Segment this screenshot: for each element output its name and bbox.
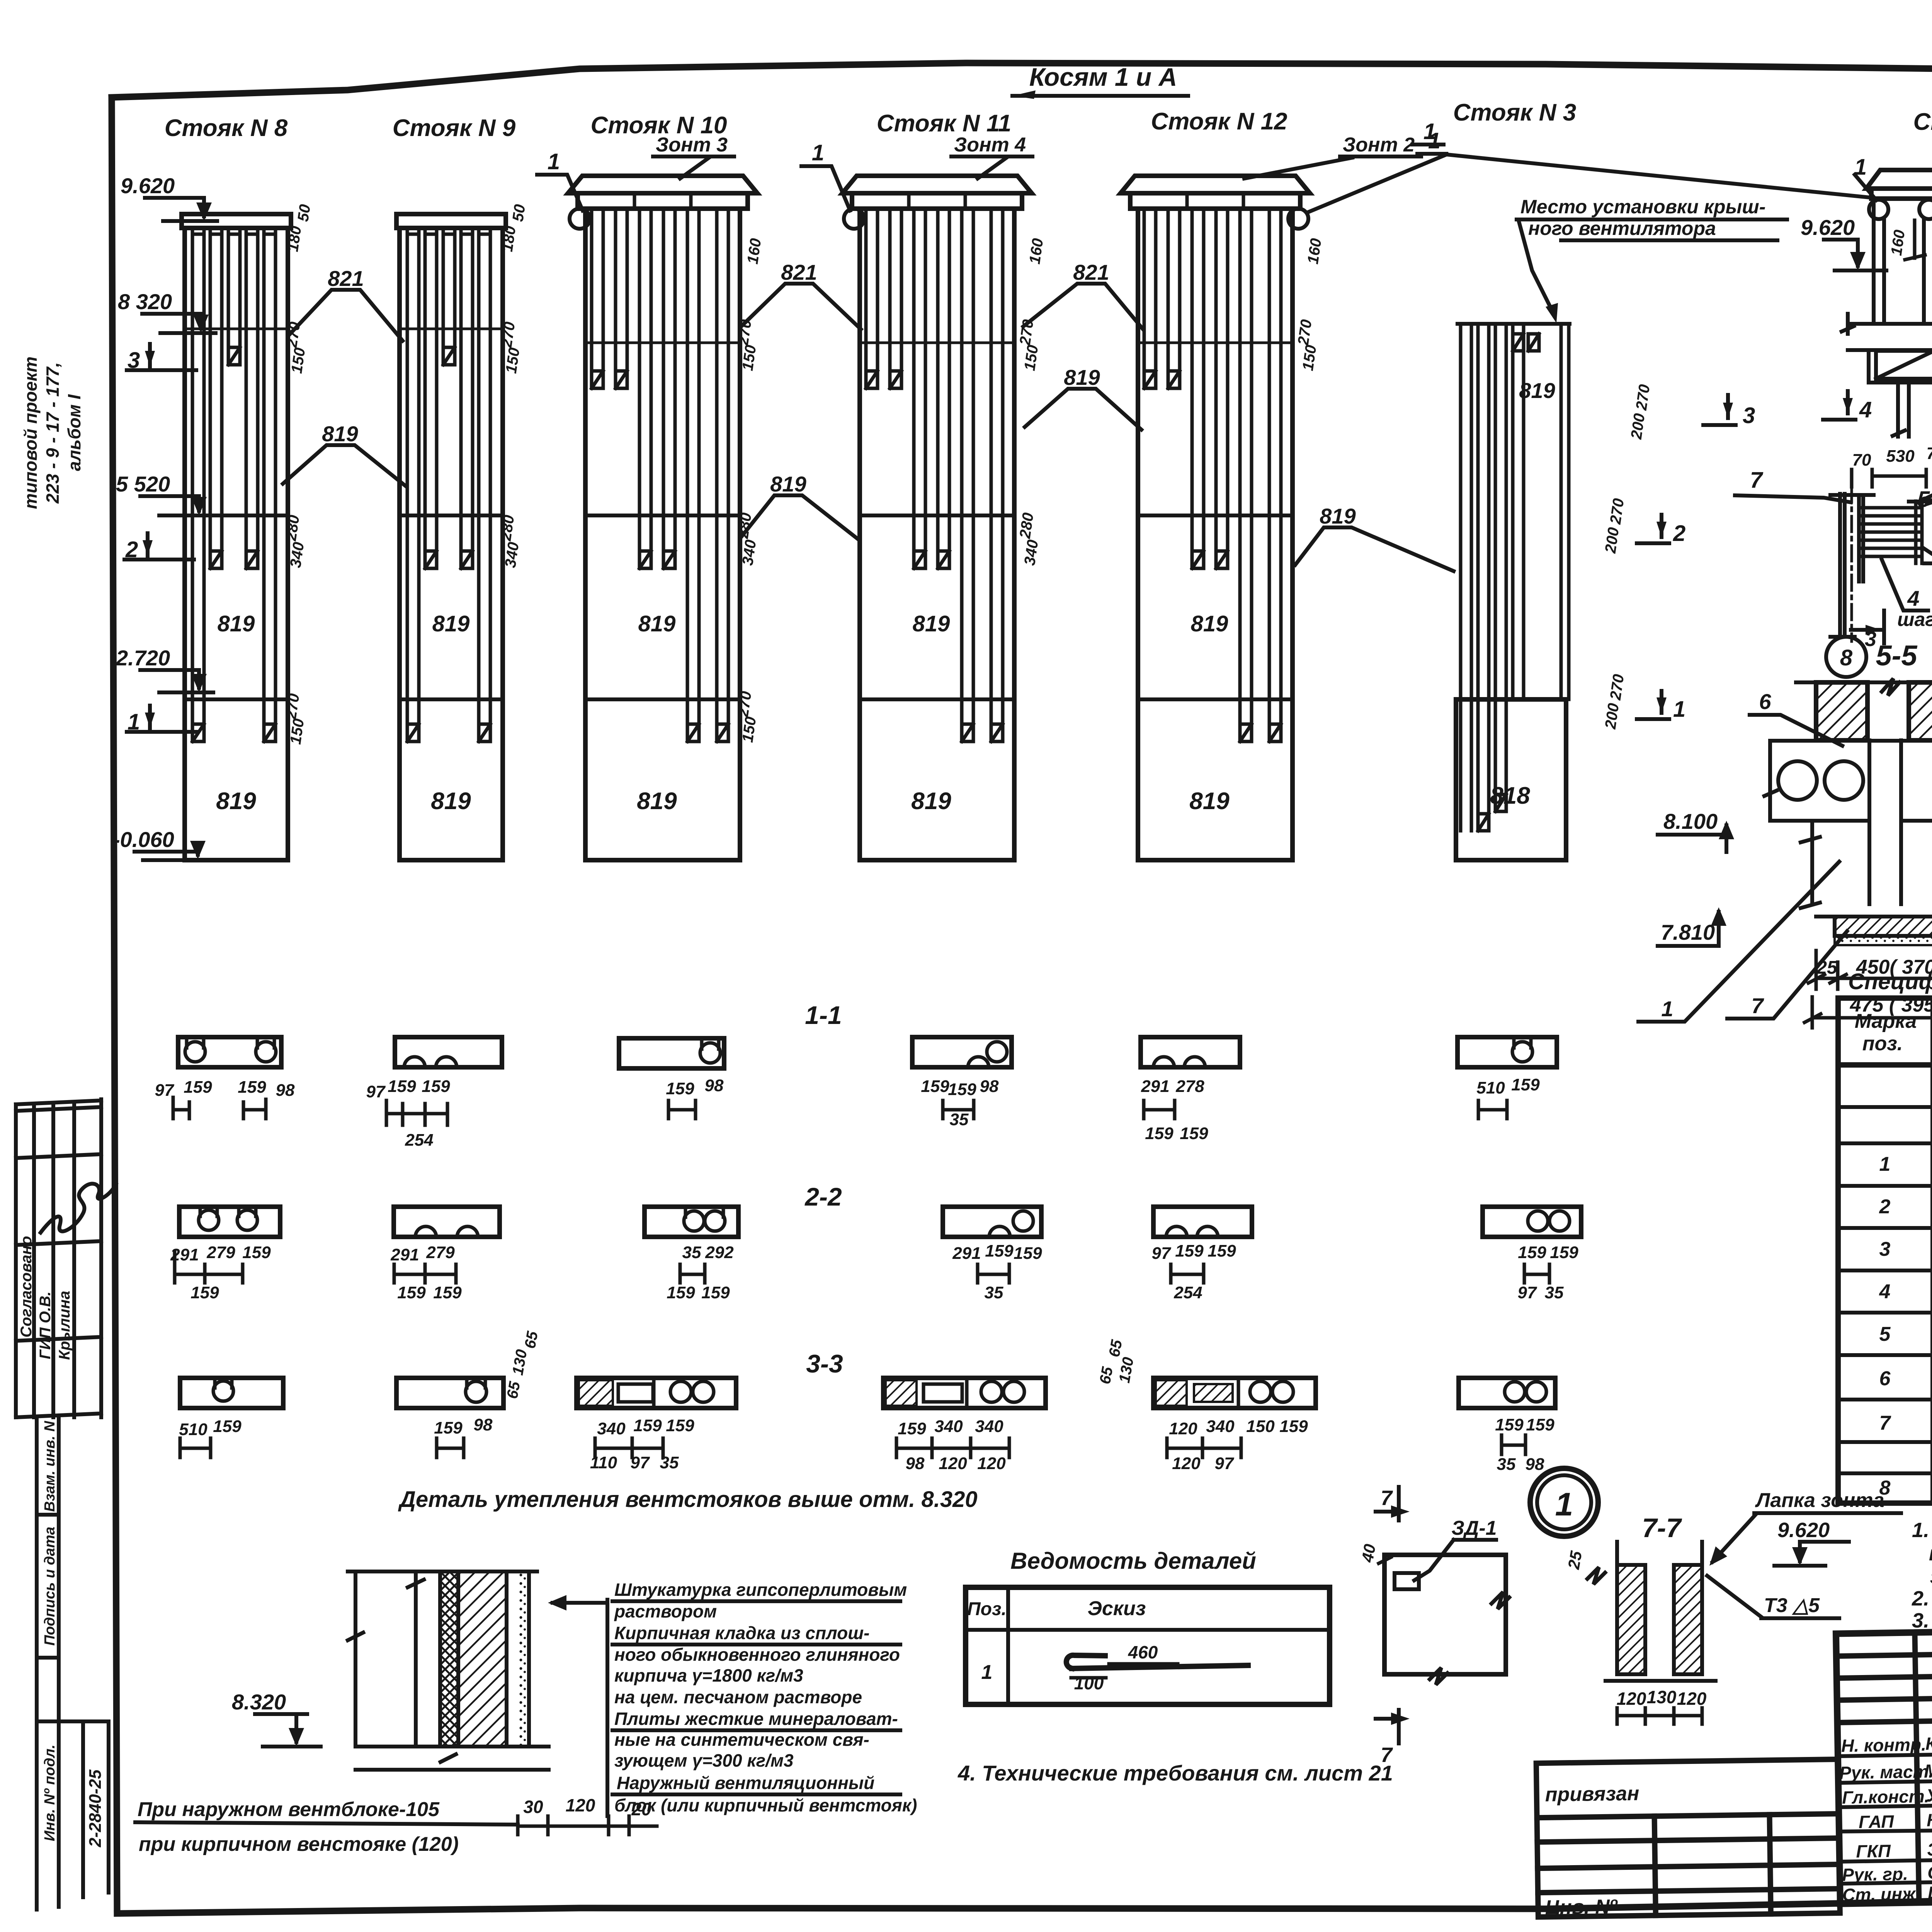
svg-text:159: 159 xyxy=(388,1077,416,1096)
svg-text:270: 270 xyxy=(1633,383,1653,412)
svg-text:150: 150 xyxy=(288,347,309,374)
stack N12 xyxy=(1121,108,1421,860)
section mark 3 left xyxy=(127,344,196,373)
svg-text:530: 530 xyxy=(1886,447,1915,466)
svg-text:70: 70 xyxy=(1927,444,1932,463)
stack N9 xyxy=(393,115,516,860)
slab band with holes xyxy=(1764,741,1932,821)
svg-text:98: 98 xyxy=(1526,1455,1544,1474)
svg-text:3: 3 xyxy=(1743,403,1755,428)
svg-text:120: 120 xyxy=(939,1454,967,1473)
svg-text:50: 50 xyxy=(509,203,529,223)
uzel 1 node circle xyxy=(1530,1468,1598,1536)
svg-text:150: 150 xyxy=(1021,344,1042,372)
svg-text:7: 7 xyxy=(1751,993,1764,1018)
svg-text:254: 254 xyxy=(1173,1283,1202,1302)
svg-text:159: 159 xyxy=(1550,1243,1578,1262)
svg-text:200: 200 xyxy=(1602,702,1622,730)
svg-text:5-5: 5-5 xyxy=(1876,639,1918,672)
section marks 7 xyxy=(1376,1486,1410,1520)
svg-text:35: 35 xyxy=(985,1283,1003,1302)
svg-text:120: 120 xyxy=(1169,1419,1197,1438)
row1 block C xyxy=(619,1038,724,1119)
svg-text:Место установки крыш-: Место установки крыш- xyxy=(1520,196,1765,218)
svg-text:Стояк N 8: Стояк N 8 xyxy=(165,115,288,141)
svg-text:98: 98 xyxy=(980,1077,999,1096)
svg-text:Н. контр.: Н. контр. xyxy=(1841,1734,1927,1755)
svg-text:98: 98 xyxy=(276,1081,295,1100)
stack N8 xyxy=(165,115,291,860)
svg-text:привязан: привязан xyxy=(1545,1782,1639,1806)
svg-text:819: 819 xyxy=(1519,378,1555,403)
svg-text:Косям 1 и А: Косям 1 и А xyxy=(1029,63,1177,91)
wall detail bottom-left xyxy=(135,1571,657,1855)
svg-text:6: 6 xyxy=(1759,689,1771,714)
svg-text:-0.060: -0.060 xyxy=(113,827,174,852)
svg-text:159: 159 xyxy=(667,1283,695,1302)
svg-text:6: 6 xyxy=(1879,1367,1891,1390)
label 821 between stacks 8 and 9 xyxy=(289,266,403,341)
svg-text:340: 340 xyxy=(597,1419,626,1438)
elevation 2.720 xyxy=(116,646,213,692)
stack N8 right dims xyxy=(282,203,314,745)
svg-text:159: 159 xyxy=(666,1416,694,1435)
svg-text:Гл.конст.: Гл.конст. xyxy=(1842,1786,1930,1808)
svg-text:160: 160 xyxy=(1304,237,1325,265)
svg-text:819: 819 xyxy=(1064,365,1100,389)
svg-text:159: 159 xyxy=(1207,1242,1236,1260)
svg-text:340: 340 xyxy=(934,1417,963,1436)
svg-text:Камай: Камай xyxy=(1927,1809,1932,1830)
row3 dim 65-130 left of E xyxy=(1097,1338,1137,1385)
vertical angle bar xyxy=(1830,494,1874,637)
svg-text:1: 1 xyxy=(981,1661,993,1684)
svg-text:3: 3 xyxy=(1879,1238,1891,1260)
label 819 between stacks 10 and 11 xyxy=(741,472,859,540)
wall spec text block xyxy=(548,1580,917,1816)
svg-text:160: 160 xyxy=(1026,237,1047,265)
leader 1 to 5a left circle xyxy=(1854,155,1876,200)
label 821 between stacks 10 and 11 xyxy=(741,260,861,329)
section mark 2 right of stack 3 xyxy=(1637,515,1685,546)
title block annex (privjazan / inv no) xyxy=(1536,1759,1840,1919)
svg-text:блок (или кирпичный вентстояк): блок (или кирпичный вентстояк) xyxy=(614,1795,917,1815)
svg-text:159: 159 xyxy=(238,1078,266,1097)
elevation 9.620 at 7-7 xyxy=(1774,1519,1851,1566)
svg-text:Наружный вентиляционный: Наружный вентиляционный xyxy=(617,1773,874,1793)
svg-text:ного обыкновенного глиняного: ного обыкновенного глиняного xyxy=(614,1645,900,1665)
svg-text:291: 291 xyxy=(1141,1077,1169,1096)
svg-text:180: 180 xyxy=(284,225,305,253)
svg-text:160: 160 xyxy=(744,237,765,265)
svg-text:Крылина: Крылина xyxy=(56,1291,73,1360)
svg-text:159: 159 xyxy=(898,1419,926,1438)
svg-text:159: 159 xyxy=(985,1242,1014,1260)
svg-text:При наружном вентблоке-105: При наружном вентблоке-105 xyxy=(138,1798,440,1821)
svg-text:2-2: 2-2 xyxy=(804,1182,842,1211)
svg-text:150: 150 xyxy=(503,347,523,374)
leader 1 to stack 10 xyxy=(537,149,583,211)
svg-text:278: 278 xyxy=(1175,1077,1204,1096)
svg-text:159: 159 xyxy=(1511,1075,1540,1094)
svg-text:7.810: 7.810 xyxy=(1661,920,1715,944)
svg-text:1: 1 xyxy=(548,149,560,174)
svg-text:9.620: 9.620 xyxy=(1801,215,1855,240)
svg-text:ГАП: ГАП xyxy=(1859,1811,1895,1832)
svg-text:340: 340 xyxy=(502,541,522,569)
svg-text:821: 821 xyxy=(1073,260,1109,284)
svg-text:35: 35 xyxy=(660,1453,679,1472)
title block main xyxy=(1836,1620,1932,1905)
svg-text:зонтов (см. узел 1 ).: зонтов (см. узел 1 ). xyxy=(1930,1565,1932,1588)
svg-text:Камай: Камай xyxy=(1925,1733,1932,1753)
svg-text:340: 340 xyxy=(1206,1417,1235,1436)
rebar detail left (shag 80) xyxy=(1735,440,1932,651)
ladder bars xyxy=(1861,501,1922,563)
section mark 1 right of stack 3 xyxy=(1637,691,1685,722)
svg-text:35: 35 xyxy=(682,1243,701,1262)
svg-text:160: 160 xyxy=(1888,229,1908,257)
section mark 1 left xyxy=(127,706,196,735)
svg-text:8: 8 xyxy=(1840,645,1853,670)
svg-text:Подпись и дата: Подпись и дата xyxy=(42,1527,58,1646)
elevation 9.620 at stack 3 xyxy=(1801,215,1886,270)
ZD-1 embedded plate detail xyxy=(1358,1486,1509,1767)
svg-text:340: 340 xyxy=(975,1417,1003,1436)
svg-text:819: 819 xyxy=(322,422,358,446)
svg-text:Т3 △5: Т3 △5 xyxy=(1764,1594,1820,1617)
svg-text:159: 159 xyxy=(1014,1244,1042,1263)
row3 block F xyxy=(1459,1378,1555,1474)
svg-text:150: 150 xyxy=(287,718,308,745)
svg-text:1: 1 xyxy=(1555,1486,1573,1522)
svg-text:159: 159 xyxy=(213,1417,241,1436)
node circle 8 for section 5-5 xyxy=(1826,637,1918,677)
leader 1 to stack 11 xyxy=(801,140,850,211)
svg-text:Взам. инв. N: Взам. инв. N xyxy=(42,1420,58,1512)
svg-text:35: 35 xyxy=(950,1110,969,1129)
svg-text:кирпича γ=1800 кг/м3: кирпича γ=1800 кг/м3 xyxy=(614,1665,803,1685)
notes list right xyxy=(1912,1519,1932,1632)
svg-text:Шишкина: Шишкина xyxy=(1928,1881,1932,1903)
svg-text:1: 1 xyxy=(1423,119,1436,144)
leader 1 left of stack 3 label xyxy=(1412,119,1444,145)
svg-text:35: 35 xyxy=(1545,1283,1564,1302)
section mark 2 left xyxy=(124,533,194,562)
svg-text:159: 159 xyxy=(921,1077,949,1096)
svg-text:270: 270 xyxy=(1607,673,1628,701)
svg-text:65: 65 xyxy=(504,1380,524,1400)
svg-text:Стояк N 5а: Стояк N 5а xyxy=(1913,109,1932,135)
svg-text:Сафарова: Сафарова xyxy=(1927,1861,1932,1883)
svg-text:821: 821 xyxy=(328,266,364,291)
svg-text:Спецификация металлических э: Спецификация металлических элементов к л… xyxy=(1848,969,1932,994)
svg-text:Зонт 2: Зонт 2 xyxy=(1343,134,1415,156)
svg-text:25: 25 xyxy=(1816,957,1838,978)
svg-text:97: 97 xyxy=(366,1082,386,1101)
shaft walls through slab xyxy=(1801,740,1932,908)
svg-text:819: 819 xyxy=(770,472,806,496)
bottom dims 30 120 20 xyxy=(523,1795,651,1819)
svg-text:97: 97 xyxy=(1152,1244,1172,1263)
svg-text:280: 280 xyxy=(1017,512,1037,540)
socket below 5a xyxy=(1869,350,1932,437)
label 819 between stacks 8 and 9 xyxy=(283,422,406,486)
left margin rotated project text xyxy=(20,357,84,509)
svg-text:65: 65 xyxy=(1097,1365,1116,1385)
svg-text:Штукатурка гипсоперлитовым: Штукатурка гипсоперлитовым xyxy=(614,1580,907,1600)
row1 block F xyxy=(1458,1037,1557,1119)
svg-text:Цнв. Nº: Цнв. Nº xyxy=(1545,1895,1618,1918)
svg-text:159: 159 xyxy=(1526,1415,1554,1434)
svg-text:9.620: 9.620 xyxy=(121,173,175,198)
svg-text:130: 130 xyxy=(1647,1687,1677,1707)
row3 block D wide xyxy=(883,1378,1046,1473)
top bricks hatched xyxy=(1816,682,1867,740)
svg-text:2: 2 xyxy=(1673,521,1685,546)
svg-text:460: 460 xyxy=(1128,1642,1158,1662)
svg-text:ные на синтетическом свя-: ные на синтетическом свя- xyxy=(614,1730,869,1750)
vedomost detalej table xyxy=(966,1548,1330,1704)
stack N12 right dims xyxy=(1295,237,1325,372)
svg-text:7-7: 7-7 xyxy=(1642,1513,1682,1543)
svg-text:270: 270 xyxy=(1607,497,1628,526)
svg-text:4: 4 xyxy=(1859,397,1872,422)
svg-text:510: 510 xyxy=(1476,1078,1505,1097)
row2 block C xyxy=(645,1207,738,1302)
spec table grid xyxy=(1838,998,1932,1503)
leader 1 to stack 12 right circle xyxy=(1309,128,1873,212)
svg-text:50: 50 xyxy=(294,203,314,223)
svg-text:ГИП О.В.: ГИП О.В. xyxy=(37,1291,54,1359)
svg-text:8 320: 8 320 xyxy=(118,289,172,314)
svg-text:альбом I: альбом I xyxy=(64,394,84,471)
row3 dim 65-130-65 left of C xyxy=(504,1330,541,1400)
svg-text:65: 65 xyxy=(522,1330,541,1350)
svg-text:120: 120 xyxy=(1172,1454,1201,1473)
svg-text:292: 292 xyxy=(705,1243,734,1262)
dims 70 530 70 above xyxy=(1852,444,1932,469)
svg-text:200: 200 xyxy=(1628,412,1648,440)
svg-text:818: 818 xyxy=(1490,782,1530,809)
svg-text:270: 270 xyxy=(1295,318,1315,347)
svg-text:120: 120 xyxy=(1617,1689,1646,1709)
row2 block B xyxy=(390,1207,500,1302)
svg-text:Поз.: Поз. xyxy=(967,1599,1007,1619)
section mark 3 right of stack 3 xyxy=(1703,395,1755,428)
embedded angle strip bottom xyxy=(1835,917,1932,936)
svg-text:270: 270 xyxy=(498,321,519,349)
svg-text:1: 1 xyxy=(1673,697,1685,722)
svg-text:510: 510 xyxy=(179,1420,207,1439)
svg-text:поз.: поз. xyxy=(1862,1032,1903,1055)
top bar line to right xyxy=(1922,498,1932,500)
svg-text:25: 25 xyxy=(1564,1549,1585,1571)
svg-text:98: 98 xyxy=(906,1454,925,1473)
svg-text:на отм. 9.550 установить закл: на отм. 9.550 установить закладные детал… xyxy=(1929,1542,1932,1565)
svg-text:270: 270 xyxy=(282,692,303,721)
elevation -0.060 xyxy=(113,827,216,860)
stamp signature squiggle xyxy=(41,1184,116,1233)
svg-text:159: 159 xyxy=(1180,1124,1208,1143)
row2 block A xyxy=(170,1207,280,1302)
svg-text:Рук. гр.: Рук. гр. xyxy=(1842,1864,1908,1885)
svg-text:4: 4 xyxy=(1907,586,1919,611)
svg-text:200: 200 xyxy=(1602,526,1622,554)
T3 d5 label at 7-7 xyxy=(1707,1576,1839,1618)
svg-text:1: 1 xyxy=(812,140,824,165)
stack N10 right dims xyxy=(735,237,765,743)
svg-text:7: 7 xyxy=(1879,1412,1891,1434)
stack N3 xyxy=(1453,99,1577,860)
svg-text:7: 7 xyxy=(1750,468,1764,493)
svg-text:2-2840-25: 2-2840-25 xyxy=(86,1769,105,1847)
svg-text:159: 159 xyxy=(633,1416,662,1435)
svg-text:2. Гнезда заделать бетоном: 2. Гнезда заделать бетоном М-150 . xyxy=(1912,1587,1932,1610)
row1 block D xyxy=(912,1037,1012,1129)
svg-text:159: 159 xyxy=(1495,1415,1524,1434)
stack N11 xyxy=(842,110,1032,860)
svg-text:4: 4 xyxy=(1879,1281,1891,1303)
label 819 between stacks 11 and 12 xyxy=(1025,365,1141,430)
svg-text:120: 120 xyxy=(566,1795,595,1815)
svg-text:Согласовано: Согласовано xyxy=(18,1236,35,1338)
svg-text:Угаров: Угаров xyxy=(1926,1784,1932,1806)
hook sketch xyxy=(1072,1665,1248,1668)
svg-text:291: 291 xyxy=(952,1244,981,1263)
stack N5a xyxy=(1842,109,1932,437)
svg-text:типовой проект: типовой проект xyxy=(20,357,41,509)
elevation 8.320 xyxy=(118,289,216,333)
svg-text:1-1: 1-1 xyxy=(805,1001,842,1029)
svg-text:819: 819 xyxy=(1320,504,1355,528)
row3 block B xyxy=(396,1378,503,1458)
stack 3 left dims 200 270 xyxy=(1602,383,1653,730)
svg-text:Земляк: Земляк xyxy=(1927,1838,1932,1860)
svg-text:Деталь утепления вентстояков: Деталь утепления вентстояков выше отм. 8… xyxy=(398,1487,978,1512)
svg-text:279: 279 xyxy=(426,1243,455,1262)
svg-text:150: 150 xyxy=(739,716,760,743)
row2 block D xyxy=(943,1207,1042,1302)
svg-text:на цем. песчаном растворе: на цем. песчаном растворе xyxy=(614,1687,862,1707)
mesto ustanovki text xyxy=(1517,196,1787,323)
stack N9 right dims xyxy=(497,203,529,569)
svg-text:1. На кирпичных участках ве: 1. На кирпичных участках вентстояков 2, … xyxy=(1912,1519,1932,1542)
svg-text:Плиты жесткие минераловат-: Плиты жесткие минераловат- xyxy=(614,1709,898,1729)
section 7-7 xyxy=(1564,1513,1716,1724)
lower margin cells xyxy=(37,1417,109,1910)
svg-text:ГКП: ГКП xyxy=(1856,1841,1891,1861)
svg-text:97: 97 xyxy=(631,1453,650,1472)
svg-text:159: 159 xyxy=(666,1079,694,1098)
section 5-5 big xyxy=(1638,679,1932,1028)
section mark 5 under 5a xyxy=(1909,479,1932,514)
svg-text:3-3: 3-3 xyxy=(806,1349,843,1378)
row1 block B xyxy=(366,1037,502,1150)
svg-text:159: 159 xyxy=(242,1243,271,1262)
svg-text:Зонт 4: Зонт 4 xyxy=(954,134,1026,156)
svg-text:120: 120 xyxy=(1677,1689,1707,1709)
svg-text:159: 159 xyxy=(1518,1243,1546,1262)
row1 block A xyxy=(155,1037,295,1119)
svg-text:159: 159 xyxy=(433,1283,462,1302)
svg-text:110: 110 xyxy=(590,1453,617,1472)
svg-text:8.100: 8.100 xyxy=(1663,809,1718,833)
svg-text:70: 70 xyxy=(1852,451,1871,469)
svg-text:40: 40 xyxy=(1358,1543,1379,1564)
svg-text:Ст. инж.: Ст. инж. xyxy=(1842,1884,1920,1905)
dim 160 left of 5a xyxy=(1888,220,1925,260)
svg-text:Инв. Nº подл.: Инв. Nº подл. xyxy=(42,1745,58,1841)
left margin stamp grid (soglasovano) xyxy=(16,1099,101,1417)
row2 block E xyxy=(1152,1207,1252,1302)
svg-text:Зонт 3: Зонт 3 xyxy=(656,134,728,156)
svg-text:8.320: 8.320 xyxy=(232,1690,286,1714)
svg-text:7: 7 xyxy=(1381,1743,1393,1767)
svg-text:150: 150 xyxy=(1299,344,1320,372)
svg-text:159: 159 xyxy=(434,1418,463,1437)
svg-text:223 - 9 - 17 - 177,: 223 - 9 - 17 - 177, xyxy=(43,362,63,504)
row1 block E xyxy=(1141,1037,1240,1143)
svg-text:8: 8 xyxy=(1879,1477,1891,1499)
names column xyxy=(1839,1732,1932,1905)
svg-text:1: 1 xyxy=(1879,1153,1891,1175)
stamp rotated texts xyxy=(18,1236,73,1360)
svg-text:159: 159 xyxy=(397,1283,426,1302)
svg-text:65: 65 xyxy=(1106,1338,1126,1358)
label 819 between stack 12 and stack 3 xyxy=(1295,504,1454,571)
svg-text:159: 159 xyxy=(1145,1124,1173,1143)
stack N10 xyxy=(568,112,757,860)
svg-text:821: 821 xyxy=(781,260,817,284)
spec table rows xyxy=(1879,1076,1932,1499)
elevation 9.620 xyxy=(121,173,217,221)
svg-text:159: 159 xyxy=(948,1080,976,1099)
svg-text:159: 159 xyxy=(190,1283,219,1302)
svg-text:159: 159 xyxy=(184,1078,212,1097)
svg-text:254: 254 xyxy=(405,1131,433,1150)
svg-text:340: 340 xyxy=(1021,539,1042,566)
svg-text:5: 5 xyxy=(1879,1323,1891,1345)
svg-text:1: 1 xyxy=(1661,997,1673,1021)
svg-text:35: 35 xyxy=(1497,1455,1516,1474)
stack N11 right dims xyxy=(1017,237,1047,566)
svg-text:4. Технические требования см: 4. Технические требования см. лист 21 xyxy=(957,1761,1393,1785)
svg-text:150: 150 xyxy=(1246,1417,1275,1436)
svg-text:159: 159 xyxy=(1279,1417,1308,1436)
svg-text:3. На сечении 5-5 в скобка: 3. На сечении 5-5 в скобках даны размеры… xyxy=(1912,1609,1932,1632)
svg-text:280: 280 xyxy=(282,514,303,542)
svg-text:при кирпичном венстояке (120): при кирпичном венстояке (120) xyxy=(139,1833,459,1855)
svg-text:7: 7 xyxy=(1381,1486,1393,1510)
svg-text:340: 340 xyxy=(287,541,308,569)
svg-text:ЗД-1: ЗД-1 xyxy=(1451,1517,1497,1539)
svg-text:159: 159 xyxy=(701,1283,730,1302)
svg-text:98: 98 xyxy=(705,1076,724,1095)
label 821 between stacks 11 and 12 xyxy=(1023,260,1143,329)
svg-text:98: 98 xyxy=(474,1415,493,1434)
svg-text:340: 340 xyxy=(739,539,760,566)
row3 block A xyxy=(179,1378,283,1458)
svg-text:Стояк N 3: Стояк N 3 xyxy=(1453,99,1577,126)
svg-text:Стояк N 12: Стояк N 12 xyxy=(1151,108,1287,135)
lapka zonta label xyxy=(1709,1489,1901,1566)
svg-text:Эскиз: Эскиз xyxy=(1088,1597,1146,1620)
svg-text:280: 280 xyxy=(497,514,518,542)
section mark 4 left xyxy=(1823,391,1872,422)
svg-text:150: 150 xyxy=(739,344,760,372)
svg-text:Магидин: Магидин xyxy=(1924,1759,1932,1781)
